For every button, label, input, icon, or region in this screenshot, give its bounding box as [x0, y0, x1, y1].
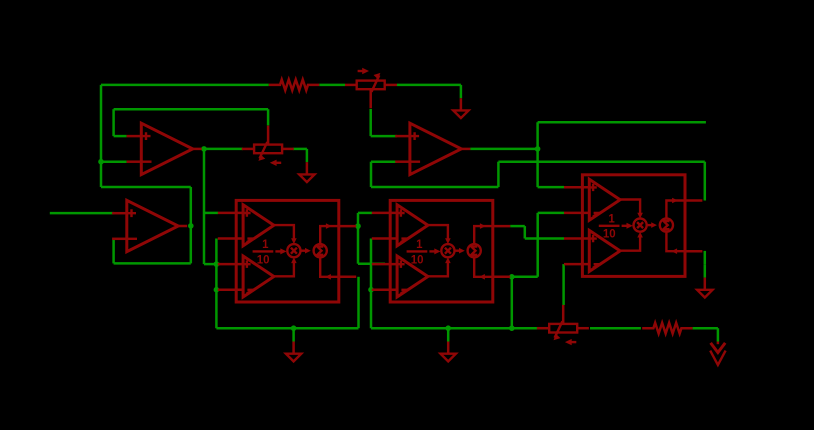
wire R1 to RV1 — [319, 84, 345, 87]
wire ground rail A — [216, 327, 358, 330]
node block A output junction — [355, 223, 361, 229]
wire U3 input — [50, 212, 114, 215]
multiplier block A — [218, 200, 356, 302]
wire U3 feedback bottom — [114, 262, 191, 265]
wire net U1- left vertical — [100, 85, 103, 187]
wire block A output stub — [355, 225, 358, 228]
wire C out loop riser — [497, 162, 500, 187]
wire U2 plus input — [371, 135, 397, 138]
wire C pin2 horizontal — [538, 212, 564, 215]
wire A out to B pin3 — [358, 262, 385, 265]
wire RV3 to R2 — [590, 327, 641, 330]
ground GND2 — [441, 328, 456, 361]
wire U2- long horizontal — [371, 186, 498, 189]
wire R2 to terminal — [693, 327, 718, 330]
node rail B right junction — [509, 325, 515, 331]
ground GND3 — [299, 149, 314, 182]
node A pin4 junction — [214, 287, 220, 293]
multiplier block C — [564, 175, 702, 277]
wire block A pin2/pin4 vertical — [215, 239, 218, 329]
wire to U3 output — [101, 186, 191, 189]
ground GND5 — [453, 85, 468, 118]
node U3 output junction — [188, 223, 194, 229]
multiplier block B — [372, 200, 510, 302]
wire ground rail B — [371, 327, 549, 330]
wire B feedback to right — [512, 276, 538, 279]
resistor R1 — [269, 80, 319, 91]
wire B feedback riser — [536, 213, 539, 277]
wire RV1 wiper to U2+ — [369, 109, 372, 136]
wire B output down — [524, 226, 527, 238]
node U1 output junction — [201, 146, 207, 152]
wire U1+ horizontal to RV2 wiper — [114, 108, 269, 111]
wire B output stub — [510, 225, 525, 228]
ground GND4 — [697, 264, 712, 297]
op-amp U1 — [127, 123, 202, 174]
op-amp U2 — [395, 123, 470, 174]
wire B output to C pin3 — [525, 237, 564, 240]
wire C out long horizontal — [498, 160, 704, 163]
wire U2 out to C pin1 — [538, 186, 564, 189]
wire top long horizontal — [538, 121, 706, 124]
wire U1+ stub — [114, 135, 127, 138]
wire net U1- top horizontal — [101, 84, 269, 87]
wire U3 output vertical — [190, 187, 193, 263]
wire U1 output to RV2 — [202, 148, 244, 151]
node U1- junction — [98, 159, 104, 165]
terminal arrow — [710, 328, 725, 365]
node U2 output junction — [535, 146, 541, 152]
node rail B ground junction — [445, 325, 451, 331]
ground GND1 — [286, 328, 301, 361]
trimmer RV3 — [537, 305, 589, 345]
wire branch to block A pin1 — [204, 212, 218, 215]
wire U2 output — [470, 148, 537, 151]
wire RV2 wiper drop — [267, 109, 270, 125]
node B feedback junction — [509, 274, 515, 280]
wire to block A pin3 — [204, 263, 220, 266]
trimmer RV1 — [345, 68, 397, 108]
wire C feedback drop — [704, 251, 707, 264]
wire U3 feedback vertical — [112, 239, 115, 264]
wire U2- drop — [370, 162, 373, 187]
wire U1+ vertical — [112, 109, 115, 136]
resistor R2 — [642, 323, 692, 334]
wire U1 inverting input — [101, 160, 127, 163]
wire RV2 to ground corner — [293, 148, 307, 151]
wire RV1 to gnd corner — [397, 84, 461, 87]
wire A out to B pin1 — [358, 212, 372, 215]
trimmer RV2 — [242, 126, 294, 166]
wire U2 out riser — [536, 122, 539, 187]
wire U2 inverting input — [371, 160, 397, 163]
wire U1 output down — [203, 149, 206, 264]
wire block A feedback drop — [357, 277, 360, 328]
node rail A ground junction — [291, 325, 297, 331]
wire C out drop — [704, 162, 707, 201]
wire B feedback drop — [511, 277, 514, 328]
node A pin3 junction — [214, 261, 220, 267]
node B pin4 junction — [368, 287, 374, 293]
wire block B pin2/pin4 vertical — [370, 239, 373, 329]
op-amp U3 — [112, 200, 187, 251]
wire A out vertical — [357, 213, 360, 264]
wire C pin4 drop — [562, 264, 565, 305]
